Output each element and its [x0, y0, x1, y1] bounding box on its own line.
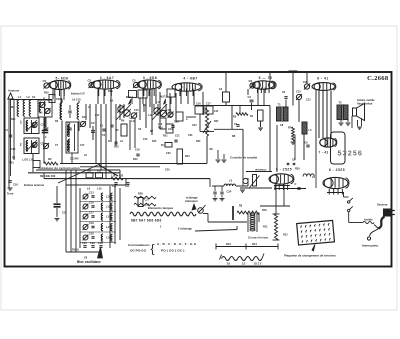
svg-text:R26: R26	[138, 192, 143, 196]
svg-text:Bloc oscillateur: Bloc oscillateur	[77, 260, 101, 264]
svg-text:Eléments lampes: Eléments lampes	[148, 206, 174, 210]
svg-text:C15: C15	[134, 109, 139, 112]
svg-text:T1: T1	[278, 103, 282, 107]
svg-text:4 - 6B7: 4 - 6B7	[183, 77, 197, 81]
svg-text:Bobine H.F.: Bobine H.F.	[71, 92, 85, 96]
svg-text:éclairage: éclairage	[186, 196, 198, 200]
svg-text:5- 6D6: 5- 6D6	[56, 76, 69, 80]
svg-text:C.2668: C.2668	[367, 75, 389, 82]
svg-text:C2: C2	[168, 108, 172, 112]
svg-text:R12: R12	[283, 234, 288, 237]
svg-text:bobine mobile: bobine mobile	[357, 98, 375, 102]
svg-text:Contrôle de tonalité: Contrôle de tonalité	[230, 155, 258, 159]
svg-text:L10: L10	[129, 116, 134, 120]
svg-text:C20: C20	[165, 169, 170, 172]
svg-text:PO [ GO ] OC ]: PO [ GO ] OC ]	[161, 249, 184, 253]
svg-text:R11: R11	[263, 225, 268, 229]
svg-text:Commutateurs: Commutateurs	[128, 243, 150, 247]
svg-text:R7: R7	[288, 126, 292, 130]
svg-text:C2: C2	[91, 121, 95, 125]
svg-text:L20: L20	[119, 175, 124, 178]
svg-text:C21: C21	[175, 135, 180, 138]
svg-text:C1: C1	[32, 95, 36, 99]
svg-text:5 - 25Z5: 5 - 25Z5	[276, 168, 292, 172]
svg-text:C5: C5	[43, 79, 47, 83]
svg-text:L13: L13	[156, 100, 161, 104]
svg-text:L2: L2	[27, 95, 31, 99]
svg-text:A: A	[43, 97, 45, 100]
svg-text:L19: L19	[111, 175, 116, 178]
svg-text:C27: C27	[145, 199, 150, 202]
svg-text:C30: C30	[166, 152, 171, 155]
svg-text:indicateur: indicateur	[185, 199, 198, 203]
svg-text:L12: L12	[148, 114, 153, 117]
svg-text:C14: C14	[112, 185, 117, 188]
svg-text:R13: R13	[226, 242, 231, 246]
svg-text:R17: R17	[168, 116, 173, 119]
svg-text:L.GO L10: L.GO L10	[22, 159, 34, 162]
svg-text:R16: R16	[97, 171, 102, 173]
svg-text:C4: C4	[5, 128, 9, 132]
svg-text:C22: C22	[192, 124, 197, 127]
svg-text:{: {	[151, 242, 155, 256]
svg-text:R12: R12	[133, 158, 138, 161]
svg-text:R16: R16	[114, 146, 119, 149]
svg-text:C13: C13	[89, 192, 94, 195]
svg-text:C23: C23	[188, 134, 193, 137]
svg-text:C: C	[149, 92, 151, 95]
svg-text:3 - 6D6: 3 - 6D6	[143, 76, 157, 80]
svg-text:R24: R24	[196, 140, 201, 143]
svg-text:R2b: R2b	[108, 89, 113, 93]
svg-text:Terre: Terre	[7, 192, 14, 196]
svg-text:C3: C3	[248, 95, 252, 99]
svg-text:C17: C17	[89, 212, 94, 215]
svg-text:ROUL: ROUL	[72, 248, 80, 252]
svg-text:R25: R25	[11, 118, 16, 121]
svg-text:PB1: PB1	[9, 162, 14, 165]
svg-text:R19: R19	[262, 209, 267, 212]
svg-text:C34: C34	[227, 190, 232, 194]
svg-text:C9: C9	[303, 80, 307, 84]
svg-text:fusible: fusible	[364, 217, 373, 221]
svg-text:C10: C10	[296, 91, 301, 94]
svg-text:PO: PO	[21, 143, 23, 146]
svg-text:C29: C29	[98, 241, 103, 245]
svg-text:C19: C19	[89, 233, 94, 236]
svg-text:R2: R2	[48, 157, 52, 161]
svg-text:C26: C26	[90, 241, 95, 245]
svg-text:C11: C11	[214, 110, 219, 113]
svg-text:GO: GO	[21, 120, 23, 124]
svg-text:R21: R21	[163, 135, 168, 138]
svg-text:C18: C18	[89, 222, 94, 225]
svg-text:Plaquette de changement de ten: Plaquette de changement de tensions	[284, 254, 336, 258]
svg-text:C5: C5	[88, 79, 92, 83]
svg-text:C16: C16	[89, 202, 94, 205]
svg-text:10 tours fil résist.: 10 tours fil résist.	[248, 237, 269, 240]
svg-text:C13 R6: C13 R6	[70, 158, 79, 161]
svg-text:R20: R20	[87, 171, 92, 173]
svg-text:Interrupteur: Interrupteur	[362, 244, 379, 248]
svg-text:OC-PO-GO: OC-PO-GO	[130, 249, 147, 253]
svg-text:C11: C11	[95, 114, 100, 117]
svg-text:R11: R11	[108, 140, 113, 143]
svg-text:C12: C12	[143, 138, 148, 141]
svg-text:FU: FU	[161, 144, 165, 147]
svg-text:Haut-Parleur: Haut-Parleur	[357, 102, 373, 106]
svg-text:MA: MA	[11, 106, 15, 109]
svg-text:R9 C29b R16: R9 C29b R16	[40, 175, 56, 178]
svg-text:R29: R29	[44, 92, 49, 95]
svg-text:C16: C16	[13, 183, 18, 187]
svg-text:C: C	[295, 182, 297, 186]
svg-text:2 éclairage: 2 éclairage	[178, 227, 192, 231]
svg-text:R14: R14	[252, 242, 257, 246]
svg-text:C12: C12	[306, 99, 311, 102]
svg-text:L6 C10: L6 C10	[72, 98, 81, 102]
svg-text:2 - 6A7: 2 - 6A7	[100, 76, 114, 80]
svg-text:6 - 41: 6 - 41	[317, 77, 328, 81]
svg-text:R15: R15	[152, 140, 157, 143]
svg-text:R27: R27	[214, 120, 219, 123]
svg-text:R4: R4	[121, 119, 125, 123]
svg-text:M.F.2: M.F.2	[160, 95, 167, 99]
svg-text:R30: R30	[295, 168, 300, 171]
svg-text:C23: C23	[11, 148, 16, 151]
svg-text:Bobine antenne: Bobine antenne	[24, 183, 45, 187]
svg-text:T2: T2	[339, 101, 343, 105]
svg-text:Indicateur de syntonisation: Indicateur de syntonisation	[38, 166, 80, 170]
svg-text:C25: C25	[82, 241, 87, 245]
svg-text:C17: C17	[80, 144, 85, 147]
svg-text:7 - 41: 7 - 41	[319, 151, 329, 155]
svg-text:C8: C8	[41, 142, 45, 146]
svg-text:25 Z 5: 25 Z 5	[254, 262, 262, 266]
svg-text:53256: 53256	[338, 149, 364, 158]
svg-text:L1: L1	[18, 95, 22, 99]
svg-text:6B7 6A7 6D6 6D6: 6B7 6A7 6D6 6D6	[131, 219, 162, 223]
svg-text:Secteur: Secteur	[377, 203, 388, 207]
svg-text:6 - 25Z5: 6 - 25Z5	[329, 168, 345, 172]
svg-text:L10: L10	[97, 187, 102, 191]
svg-text:C2: C2	[62, 211, 66, 215]
svg-text:A . B . C . D . E . F . G H: A . B . C . D . E . F . G H	[157, 242, 197, 246]
svg-text:C5: C5	[132, 79, 136, 83]
svg-text:C24: C24	[125, 185, 130, 188]
svg-text:R10: R10	[158, 127, 163, 130]
svg-text:R13: R13	[185, 155, 190, 158]
svg-text:C16: C16	[135, 149, 140, 152]
svg-text:C6: C6	[249, 79, 253, 83]
svg-text:Antenne: Antenne	[8, 89, 20, 93]
